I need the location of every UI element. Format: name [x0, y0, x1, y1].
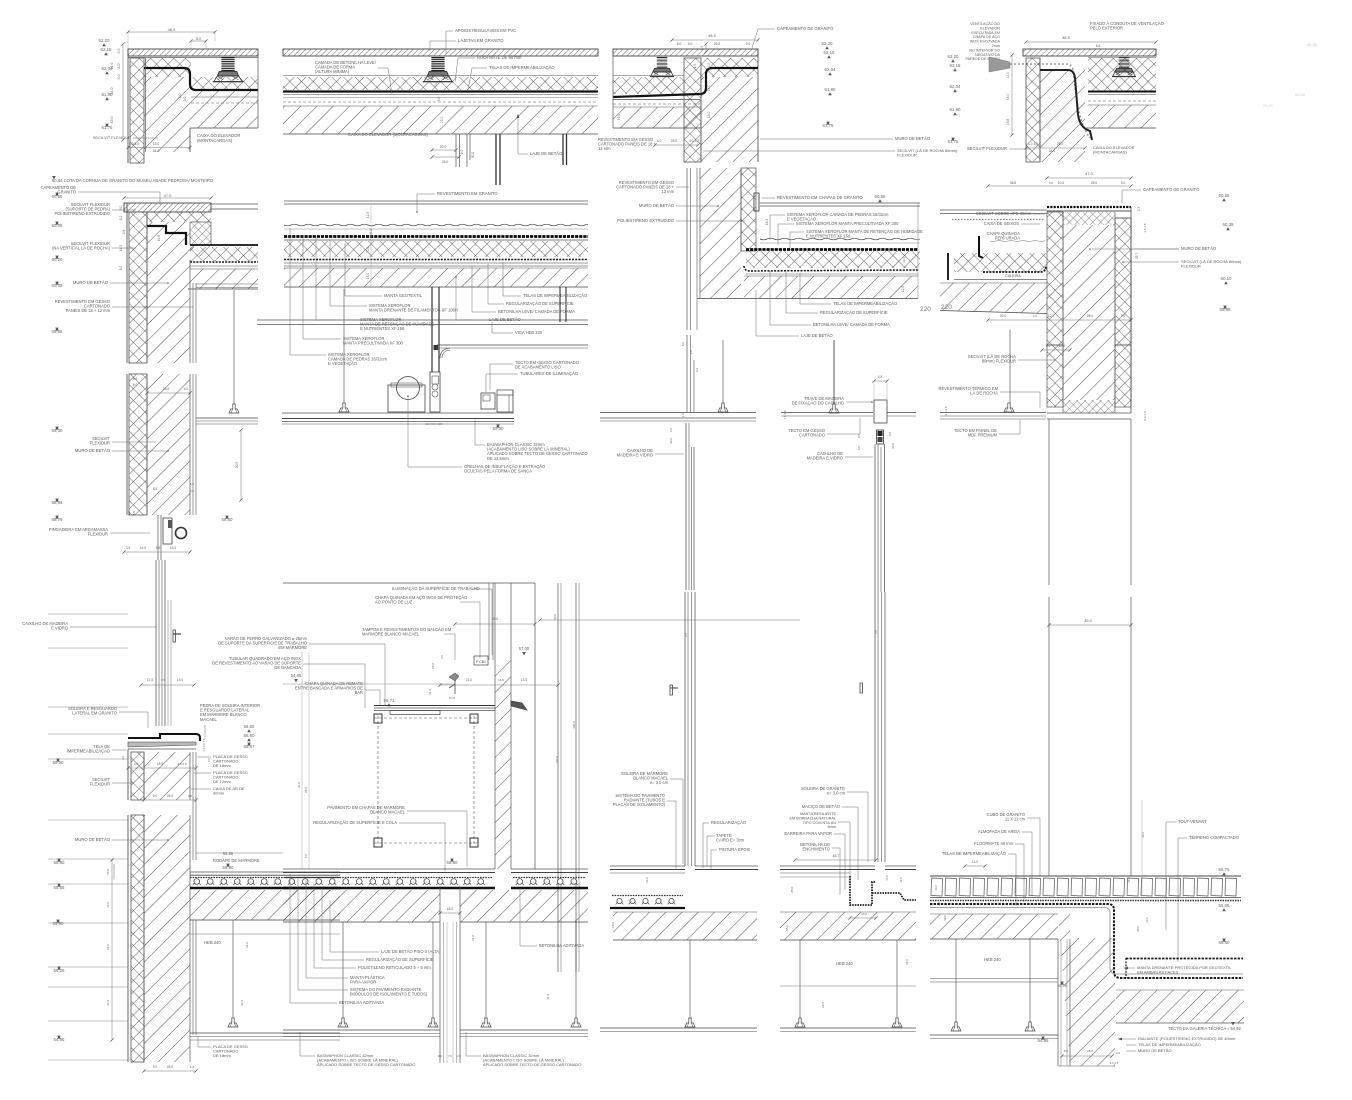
ceiling left M4b	[1009, 330, 1011, 410]
svg-text:14.0: 14.0	[707, 85, 711, 92]
svg-text:MANTA RESILIENTE: MANTA RESILIENTE	[800, 812, 836, 816]
svg-text:62,20: 62,20	[948, 54, 960, 59]
svg-text:5.3: 5.3	[1137, 207, 1141, 212]
svg-text:3.0: 3.0	[1049, 181, 1054, 185]
svg-text:BETONILHA LEVE/ CAMADA DE FORM: BETONILHA LEVE/ CAMADA DE FORMA	[813, 322, 890, 327]
cornice roof bands M1	[190, 244, 258, 246]
svg-text:MÁRMORE BLANCO MACAEL: MÁRMORE BLANCO MACAEL	[362, 632, 420, 637]
svg-text:MADEIRA E VIDRO: MADEIRA E VIDRO	[807, 456, 843, 461]
svg-text:5.0: 5.0	[127, 511, 131, 516]
svg-text:120.9: 120.9	[555, 756, 559, 764]
svg-text:EM MÁRMORE: EM MÁRMORE	[278, 645, 307, 650]
bracket B2	[511, 701, 527, 710]
svg-text:55,06: 55,06	[1219, 903, 1231, 908]
bottom dims M4	[988, 319, 1131, 321]
svg-text:POLIESTIRENO EXTRUDIDO: POLIESTIRENO EXTRUDIDO	[617, 218, 675, 223]
threshold B3 left	[610, 865, 685, 867]
svg-text:41.0: 41.0	[240, 1000, 244, 1006]
svg-text:BETONILHA LEVE/ CAMADA DE FORM: BETONILHA LEVE/ CAMADA DE FORMA	[498, 309, 575, 314]
mullion G2	[874, 444, 876, 592]
svg-text:FLEXIDUR: FLEXIDUR	[897, 153, 917, 158]
plaster lines B1	[192, 752, 194, 860]
svg-text:SISTEMA XEROFLOR MANTA PRECULT: SISTEMA XEROFLOR MANTA PRECULTIVADA XF 3…	[796, 221, 899, 226]
svg-text:57,00: 57,00	[519, 646, 530, 651]
svg-text:IMPERMEABILIZAÇÃO: IMPERMEABILIZAÇÃO	[67, 749, 110, 754]
top line B2	[283, 582, 535, 584]
svg-text:62,04: 62,04	[950, 84, 962, 89]
crosshatch band right T4	[1088, 58, 1156, 91]
top dims T1	[128, 31, 215, 33]
black manta M3	[746, 248, 918, 251]
svg-text:8.2: 8.2	[119, 266, 123, 271]
svg-text:4.5: 4.5	[669, 428, 673, 433]
parapet left crosshatch M4	[1047, 212, 1063, 345]
duct connection M2b	[430, 372, 440, 412]
faucet B2	[449, 673, 459, 681]
svg-text:80mm) FLEXIDUR: 80mm) FLEXIDUR	[982, 359, 1016, 364]
svg-text:Dn15: Dn15	[449, 696, 456, 700]
svg-text:e= 3,0 cm: e= 3,0 cm	[650, 780, 669, 785]
svg-text:25.5: 25.5	[714, 42, 721, 46]
svg-text:TIPO COM NTA 8/4: TIPO COM NTA 8/4	[803, 821, 836, 825]
mullion B3b	[874, 592, 876, 862]
concrete wall hatch B1	[144, 752, 190, 800]
slab hatch M4 left	[940, 283, 1047, 313]
svg-text:14.2: 14.2	[934, 885, 938, 891]
svg-text:11.0: 11.0	[110, 63, 114, 70]
svg-text:29.5: 29.5	[821, 1002, 825, 1008]
svg-text:62,15: 62,15	[824, 50, 836, 55]
hanging rod G2	[833, 340, 835, 404]
svg-text:MANTA PRECULTIVADA XF 300: MANTA PRECULTIVADA XF 300	[343, 341, 404, 346]
svg-text:RODAPÉ DE MÁRMORE: RODAPÉ DE MÁRMORE	[213, 858, 260, 863]
vegetation M3	[760, 238, 920, 240]
svg-text:FLEXIDUR: FLEXIDUR	[90, 441, 110, 446]
svg-text:15.0: 15.0	[177, 678, 183, 682]
svg-text:3.0: 3.0	[434, 82, 438, 87]
svg-text:14.0: 14.0	[1006, 94, 1010, 101]
svg-text:15.0: 15.0	[440, 117, 444, 124]
svg-text:MANTA DRENANTE DE FILAMENTOS X: MANTA DRENANTE DE FILAMENTOS XF 108H	[369, 308, 458, 313]
svg-text:AO PONTO DE LUZ: AO PONTO DE LUZ	[375, 600, 413, 605]
svg-text:30.0: 30.0	[891, 443, 895, 449]
svg-text:DE BANCADA: DE BANCADA	[274, 665, 301, 670]
svg-text:SECILVIT FLEXIDUR: SECILVIT FLEXIDUR	[93, 135, 131, 140]
svg-text:3.5: 3.5	[126, 546, 131, 550]
svg-text:12.9: 12.9	[366, 212, 370, 218]
left margin level lines B1	[48, 613, 128, 615]
svg-text:10.6: 10.6	[902, 257, 906, 263]
crosshatch roof band M4	[954, 253, 1047, 272]
svg-text:POLIESTIRENO EXTRUDIDO: POLIESTIRENO EXTRUDIDO	[54, 211, 110, 216]
left roof top lines M4	[940, 209, 1047, 211]
detail M3 roof terrace with upstand	[616, 168, 931, 338]
svg-text:FLEXIDUR: FLEXIDUR	[1181, 264, 1201, 269]
svg-text:3.5 6.0: 3.5 6.0	[944, 406, 948, 416]
svg-text:9.6: 9.6	[133, 377, 138, 381]
svg-text:TERRENO COMPACTADO: TERRENO COMPACTADO	[1189, 835, 1239, 840]
dim chain T3 right	[705, 44, 707, 52]
svg-text:4.0: 4.0	[184, 387, 189, 391]
svg-text:20.0: 20.0	[1000, 314, 1007, 318]
roof layer lines T3	[613, 99, 700, 101]
svg-text:9.0: 9.0	[1121, 181, 1126, 185]
slab soffit lines T1	[191, 96, 258, 98]
crosshatch horizontal band M3	[746, 251, 920, 268]
svg-text:TELAS DE IMPERMEABILIZAÇÃO: TELAS DE IMPERMEABILIZAÇÃO	[942, 851, 1006, 856]
svg-text:25.0: 25.0	[1091, 181, 1098, 185]
svg-text:9.0: 9.0	[1121, 314, 1126, 318]
plaster lines M3	[686, 168, 688, 330]
svg-text:85.0: 85.0	[304, 787, 308, 793]
funnel arrow T4	[989, 57, 1010, 72]
svg-text:E NUTRIENTES XF 158: E NUTRIENTES XF 158	[360, 326, 405, 331]
svg-text:(MONTACARGAS): (MONTACARGAS)	[1093, 150, 1127, 155]
top dims M4	[1047, 177, 1131, 179]
dim 48.7 B3b	[795, 859, 876, 861]
top dims T3	[672, 39, 758, 41]
svg-text:HEB 240: HEB 240	[836, 961, 853, 966]
ceiling B2b	[283, 1029, 440, 1031]
svg-text:15.0: 15.0	[431, 663, 435, 669]
svg-text:60,10: 60,10	[1221, 276, 1233, 281]
granite slab band T1	[128, 49, 258, 56]
svg-text:6.0: 6.0	[695, 368, 699, 373]
svg-text:MADEIRA E VIDRO: MADEIRA E VIDRO	[617, 453, 653, 458]
mullion G1	[685, 423, 687, 590]
svg-text:62,20: 62,20	[99, 38, 111, 43]
slab hatch B1	[190, 890, 340, 920]
ceiling B3 left	[689, 940, 691, 1018]
svg-text:5.0: 5.0	[183, 97, 187, 102]
dims right B2	[540, 619, 800, 621]
svg-text:220: 220	[941, 304, 952, 311]
skirting line B1	[196, 852, 283, 854]
detail M2b suspended ceiling and HVAC	[282, 289, 588, 474]
svg-text:BETONILHA ADITIVADA: BETONILHA ADITIVADA	[339, 1000, 384, 1005]
concrete hatch wall+slab T1	[144, 77, 258, 152]
svg-text:TECTO DA GALERIA TÉCNICA = 54,: TECTO DA GALERIA TÉCNICA = 54,92	[1168, 1026, 1241, 1031]
svg-text:CARTONADO: CARTONADO	[799, 433, 825, 438]
svg-text:CAPEAMENTO DE GRANITO: CAPEAMENTO DE GRANITO	[777, 26, 834, 31]
svg-text:7.0 5.0 2.5 8.0: 7.0 5.0 2.5 8.0	[113, 864, 116, 880]
chapa L profile M4	[979, 236, 983, 258]
granite band T3	[613, 49, 758, 56]
svg-text:DE 12,5mm: DE 12,5mm	[487, 456, 509, 461]
svg-text:LAJE DE BETÃO: LAJE DE BETÃO	[530, 151, 563, 156]
ceiling B4	[930, 1034, 1058, 1036]
svg-text:16.0: 16.0	[645, 877, 649, 883]
svg-text:60,55: 60,55	[875, 194, 887, 199]
dim verticals B2	[301, 652, 303, 869]
step waterproof line M1	[147, 226, 186, 245]
svg-text:8.5: 8.5	[857, 446, 861, 451]
svg-text:40.0: 40.0	[553, 614, 557, 620]
svg-text:INOX ESCOVADA: INOX ESCOVADA	[970, 40, 1001, 44]
svg-text:LAJETAS EM GRANITO: LAJETAS EM GRANITO	[458, 38, 504, 43]
wall edge lines G1	[686, 335, 688, 412]
black manta band M2	[284, 235, 588, 238]
handle B3 left	[670, 685, 673, 695]
crosshatch under coping M1	[129, 212, 211, 222]
interior plaster lines M1	[189, 260, 191, 363]
svg-text:PINTURA EPOXI: PINTURA EPOXI	[719, 847, 750, 852]
granite slab band T2	[283, 49, 598, 56]
concrete wall hatch T3	[701, 77, 758, 162]
handle B3b	[860, 683, 863, 693]
svg-text:ENCHIMENTO: ENCHIMENTO	[803, 847, 830, 852]
slab hatch T3	[613, 107, 701, 128]
svg-text:2.0: 2.0	[457, 1054, 461, 1058]
waterproofing line T2	[283, 90, 598, 92]
svg-text:6mm: 6mm	[828, 825, 836, 829]
svg-text:4.8: 4.8	[878, 375, 883, 379]
svg-text:MACAEL: MACAEL	[200, 717, 218, 722]
svg-text:CHAPA DE AÇO: CHAPA DE AÇO	[973, 35, 1000, 39]
svg-text:8.0: 8.0	[677, 42, 682, 46]
svg-text:62,15: 62,15	[101, 47, 113, 52]
svg-text:REGULARIZAÇÃO DE SUPERFÍCIE: REGULARIZAÇÃO DE SUPERFÍCIE	[820, 310, 888, 315]
svg-text:25.0: 25.0	[1087, 1049, 1093, 1053]
svg-text:15.0: 15.0	[106, 902, 110, 908]
svg-text:EM AMBAS AS FACES: EM AMBAS AS FACES	[1137, 970, 1179, 975]
svg-text:4.0: 4.0	[1116, 1051, 1120, 1055]
svg-text:REGULARIZAÇÃO: REGULARIZAÇÃO	[711, 820, 746, 825]
sand line B4	[930, 900, 1241, 902]
svg-text:MDF PREMIUM: MDF PREMIUM	[968, 433, 998, 438]
svg-text:MURO DE BETÃO: MURO DE BETÃO	[639, 203, 675, 208]
insulation crosshatch wall T1	[130, 58, 144, 163]
svg-text:POLIETILENO RETICULADO 5 + 5 m: POLIETILENO RETICULADO 5 + 5 mm	[358, 965, 431, 970]
svg-text:3.5: 3.5	[161, 678, 166, 682]
svg-text:15.0: 15.0	[106, 869, 110, 875]
svg-text:11 X 11 cm: 11 X 11 cm	[1005, 817, 1026, 822]
svg-text:ENTRE BANCADA E ARMÁRIOS DE: ENTRE BANCADA E ARMÁRIOS DE	[295, 686, 363, 691]
svg-text:55,88: 55,88	[223, 851, 234, 856]
svg-text:8.0: 8.0	[178, 94, 182, 99]
svg-text:APOIOS REGULÁVEIS EM PVC: APOIOS REGULÁVEIS EM PVC	[455, 28, 516, 33]
svg-text:9.0: 9.0	[438, 1054, 442, 1058]
svg-text:SECILVIT SOBRE XPS 80mm: SECILVIT SOBRE XPS 80mm	[976, 211, 1032, 216]
svg-text:CAPEAMENTO DE GRANITO: CAPEAMENTO DE GRANITO	[1143, 187, 1200, 192]
svg-text:61,90: 61,90	[825, 87, 837, 92]
svg-text:REGULARIZAÇÃO DE SUPERFÍCIE: REGULARIZAÇÃO DE SUPERFÍCIE	[506, 301, 574, 306]
detail M2 green roof slab	[257, 191, 588, 372]
svg-text:41.0: 41.0	[106, 1000, 110, 1006]
pedestal T1	[221, 57, 234, 71]
svg-text:3.5 6.0: 3.5 6.0	[783, 410, 787, 420]
svg-text:ALMOFADA DE AREIA: ALMOFADA DE AREIA	[978, 829, 1020, 834]
parapet right crosshatch M4	[1115, 218, 1131, 345]
svg-text:MANTA GEOTEXTIL: MANTA GEOTEXTIL	[384, 293, 423, 298]
svg-text:6.5: 6.5	[207, 758, 211, 762]
svg-text:3.5: 3.5	[440, 655, 444, 659]
ceiling lines M1	[196, 417, 258, 419]
svg-text:VIGA HEB 220: VIGA HEB 220	[515, 330, 543, 335]
svg-text:25.0: 25.0	[163, 387, 170, 391]
svg-text:54,85: 54,85	[291, 673, 302, 678]
detail G2 glazing mullion right col3	[781, 340, 916, 592]
svg-text:30.0: 30.0	[471, 152, 475, 158]
svg-text:P CB1: P CB1	[476, 660, 486, 664]
svg-text:6.0: 6.0	[1064, 1049, 1069, 1053]
svg-text:61,90: 61,90	[1263, 104, 1273, 108]
wall lines below T2	[495, 134, 497, 185]
svg-text:LAJE DE BETÃO PISO 0 (ALTA): LAJE DE BETÃO PISO 0 (ALTA)	[381, 949, 441, 954]
ceiling B3b	[780, 1027, 916, 1029]
svg-text:16.0: 16.0	[170, 546, 176, 550]
svg-text:DE 18mm: DE 18mm	[213, 1053, 231, 1058]
hanging rod M2b	[343, 289, 345, 403]
svg-text:MURO DE BETÃO: MURO DE BETÃO	[1138, 1048, 1172, 1053]
svg-text:11.0: 11.0	[431, 62, 435, 68]
svg-text:e= 3,0 cm: e= 3,0 cm	[827, 791, 846, 796]
svg-text:DE 18mm: DE 18mm	[213, 763, 231, 768]
svg-text:42.0: 42.0	[1141, 832, 1145, 838]
svg-text:60,39: 60,39	[1223, 222, 1235, 227]
crosshatch wall T4	[1026, 58, 1040, 162]
concrete wall hatch M3	[700, 168, 741, 298]
svg-text:36.8: 36.8	[1010, 181, 1017, 185]
dashed vent duct path T4	[1010, 64, 1090, 138]
svg-text:E VIDRO: E VIDRO	[51, 626, 68, 631]
svg-text:GRANITO: GRANITO	[57, 190, 76, 195]
crosshatch roof band T3 left	[613, 77, 684, 94]
svg-text:TELAS DE IMPERMEABILIZAÇÃO: TELAS DE IMPERMEABILIZAÇÃO	[1138, 1042, 1201, 1047]
svg-text:16.0: 16.0	[1127, 877, 1131, 883]
svg-text:NEGATIVO DA: NEGATIVO DA	[975, 53, 1000, 57]
svg-text:6.5: 6.5	[874, 630, 878, 635]
svg-text:13.5: 13.5	[521, 678, 527, 682]
svg-text:8.5: 8.5	[153, 487, 158, 491]
svg-text:5.0 8.0: 5.0 8.0	[129, 142, 139, 146]
svg-text:LAJE DE BETÃO: LAJE DE BETÃO	[801, 333, 833, 338]
svg-text:6.6: 6.6	[1096, 44, 1101, 48]
svg-text:25.7: 25.7	[1135, 253, 1139, 259]
parapet coping M4	[1047, 206, 1131, 208]
svg-text:TUBULARES DE ILUMINAÇÃO: TUBULARES DE ILUMINAÇÃO	[520, 371, 578, 376]
svg-text:56,71: 56,71	[384, 698, 396, 703]
svg-text:50.0: 50.0	[235, 462, 239, 469]
hanging rod M1	[233, 290, 235, 404]
svg-text:SECILVIT FLEXIDUR: SECILVIT FLEXIDUR	[967, 146, 1007, 151]
long wall lines M4b	[1048, 419, 1050, 585]
ceiling lines G2	[781, 412, 873, 414]
svg-text:REGULARIZAÇÃO DE SUPERFÍCIE E: REGULARIZAÇÃO DE SUPERFÍCIE E COLA	[313, 820, 397, 825]
svg-text:48.5: 48.5	[168, 27, 177, 32]
svg-text:(NA VERTICAL LÃ DE ROCHA): (NA VERTICAL LÃ DE ROCHA)	[52, 246, 111, 251]
svg-text:5.9 4.9: 5.9 4.9	[1143, 411, 1147, 421]
svg-text:25.0: 25.0	[790, 887, 794, 893]
svg-text:HEB 240: HEB 240	[984, 957, 1001, 962]
light cove M2b	[481, 393, 495, 409]
svg-text:9.0: 9.0	[746, 42, 751, 46]
svg-text:8.0: 8.0	[196, 36, 202, 41]
svg-text:12 mm: 12 mm	[661, 189, 674, 194]
svg-text:8.0: 8.0	[304, 854, 308, 859]
wall continuation M4b	[1047, 345, 1063, 407]
svg-text:TELAS DE IMPERMEABILIZAÇÃO: TELAS DE IMPERMEABILIZAÇÃO	[489, 65, 555, 70]
P CB1 box B2	[474, 656, 488, 665]
dim 11.0 B4	[965, 865, 985, 867]
floor finish B2	[283, 868, 495, 870]
svg-text:20.0: 20.0	[440, 145, 447, 149]
svg-text:CAIXA DO ELEVADOR (MONTACARGAS: CAIXA DO ELEVADOR (MONTACARGAS)	[348, 132, 428, 137]
svg-text:17.5: 17.5	[147, 678, 153, 682]
svg-text:DE ACABAMENTO LISO: DE ACABAMENTO LISO	[515, 365, 561, 370]
svg-text:FLEXIDUR: FLEXIDUR	[90, 782, 110, 787]
svg-text:14.0: 14.0	[140, 546, 146, 550]
svg-text:24.0: 24.0	[245, 942, 249, 948]
massif B3b	[850, 876, 876, 905]
svg-text:4.0: 4.0	[888, 432, 892, 437]
svg-text:11.0: 11.0	[1006, 72, 1010, 78]
svg-text:9.0: 9.0	[153, 1065, 158, 1069]
slab hatch M3	[744, 276, 918, 298]
radiant band B3 left	[612, 895, 683, 897]
dotted sep M2	[284, 259, 588, 261]
svg-text:FLOORMATE 40 mm: FLOORMATE 40 mm	[974, 841, 1013, 846]
ceiling plane M2b	[282, 412, 514, 414]
svg-text:220: 220	[920, 306, 931, 313]
radiant floor B1	[190, 877, 340, 879]
svg-text:DE 12mm: DE 12mm	[213, 779, 231, 784]
svg-text:12 mm: 12 mm	[598, 146, 611, 151]
crosshatch wall strip M1	[129, 222, 147, 363]
svg-text:MURO DE BETÃO: MURO DE BETÃO	[895, 136, 931, 141]
detail M1 cornice and wall left column	[41, 176, 258, 560]
svg-text:APLICADO SOBRE TECTO DE GESSO: APLICADO SOBRE TECTO DE GESSO CARTONADO	[483, 1062, 581, 1067]
detail T3 parapet mirrored	[598, 26, 958, 162]
concrete wall hatch M1 upper	[147, 222, 211, 363]
svg-text:15.0: 15.0	[153, 142, 160, 146]
svg-text:15.8: 15.8	[1006, 119, 1010, 126]
svg-text:25.0: 25.0	[167, 1065, 173, 1069]
svg-text:10.0: 10.0	[1058, 181, 1065, 185]
svg-text:OCULTAS PELA FORMA DE SANCA: OCULTAS PELA FORMA DE SANCA	[464, 469, 532, 474]
hanging rod G1	[722, 340, 724, 403]
svg-text:15.0: 15.0	[110, 117, 114, 124]
svg-text:25.0: 25.0	[1057, 142, 1064, 146]
svg-text:30.0: 30.0	[1145, 917, 1149, 923]
svg-text:14.0: 14.0	[428, 689, 432, 695]
svg-text:BARREIRA PARA VAPOR: BARREIRA PARA VAPOR	[784, 831, 832, 836]
svg-text:3.8: 3.8	[122, 230, 126, 235]
svg-text:REGULARIZAÇÃO DE SUPERFÍCIE: REGULARIZAÇÃO DE SUPERFÍCIE	[366, 957, 434, 962]
svg-text:PLACAS DE ISOLAMENTO): PLACAS DE ISOLAMENTO)	[613, 802, 666, 807]
cube paving B4	[930, 875, 1241, 877]
svg-text:30mm: 30mm	[213, 791, 225, 796]
svg-text:12.0: 12.0	[1048, 314, 1055, 318]
svg-text:45.0: 45.0	[1084, 619, 1091, 623]
svg-text:EM VIGA HEB: EM VIGA HEB	[426, 422, 443, 426]
svg-text:APLICADO SOBRE TECTO DE GESSO: APLICADO SOBRE TECTO DE GESSO CARTONADO	[317, 1062, 415, 1067]
concrete slab hatch M2	[284, 268, 588, 287]
dim 50.0 M1	[240, 430, 242, 500]
waterproofing step T3	[613, 68, 758, 97]
detail T2 roof slab top-middle	[283, 28, 598, 185]
granite band T4	[1023, 49, 1156, 56]
concrete wall hatch T4	[1040, 70, 1085, 162]
svg-text:HEB 240: HEB 240	[204, 940, 221, 945]
svg-text:1.0: 1.0	[132, 511, 136, 516]
svg-text:7.0 3.0 5.0: 7.0 3.0 5.0	[202, 738, 206, 752]
concrete slab hatch T2	[283, 106, 598, 134]
S-curve waterproofing T4	[1040, 70, 1092, 140]
waterproofing step line T1	[144, 68, 258, 90]
slab hatch T4	[1088, 105, 1156, 128]
mullion B3 left	[684, 592, 686, 866]
